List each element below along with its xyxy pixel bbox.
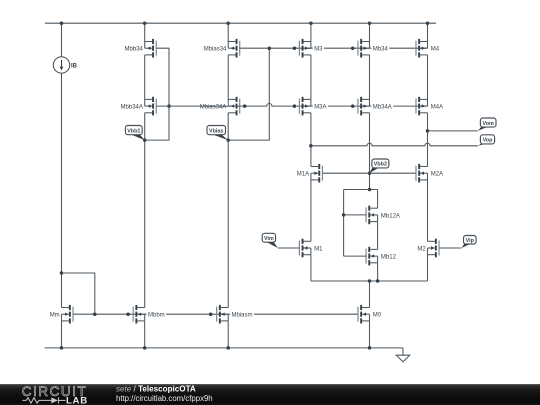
svg-text:Vip: Vip [466,238,475,244]
transistor Mbias34 (PMOS) [228,39,240,58]
wire Mb12 gate loop vertical [343,190,345,257]
wire Vop output with hops [311,143,478,146]
wire VDD to M4 source [427,23,429,41]
svg-text:Vbias: Vbias [209,128,223,134]
node C6 on VDD rail [426,21,430,25]
label Mbias34A [198,102,227,110]
wire bottom mirror gate bias line [73,313,358,315]
node C2 on VDD rail [143,21,147,25]
wire M4A drain to M2A drain [427,113,429,167]
wire Mb34 drain to Mb34A source [369,55,371,100]
node Vbb1 [143,138,147,142]
label Mb34A [371,102,393,110]
node Mm source on rail [60,346,64,350]
svg-text:M2A: M2A [431,172,443,178]
svg-text:M1: M1 [314,246,323,252]
transistor M1 (NMOS) [299,239,311,258]
wire VDD to Mbias34 source [227,23,229,41]
svg-text:M3: M3 [314,47,323,53]
svg-text:Mbias34A: Mbias34A [200,104,227,110]
svg-text:M2: M2 [417,246,426,252]
transistor M4A (PMOS) [415,97,427,116]
wire Mbb34 gate to Vbb1 node [145,48,169,140]
label M3A [313,102,328,110]
node C4 on VDD rail [309,21,313,25]
wire Vim to M1 gate [278,247,300,249]
transistor M1A (NMOS) [311,164,323,183]
transistor Mb34 (PMOS) [357,39,369,58]
svg-text:Mbbm: Mbbm [148,313,165,319]
wire M2 source to tail [427,255,429,281]
transistor Mb12 (NMOS) [366,247,378,266]
node Mbbm source on rail [143,346,147,350]
transistor Mbbm (NMOS) [133,305,145,324]
node C5 on VDD rail [368,21,372,25]
label Mb34 [371,44,389,52]
node Vbias [226,138,230,142]
wire Mbias34 drain to Mbias34A source [227,55,229,100]
net flag Vop [478,135,495,146]
transistor M0 (NMOS) [357,305,369,324]
wire Vom output [428,130,478,132]
node Vbb2 [368,171,372,175]
wire Mbb34 drain to Mbb34A source [144,55,146,100]
wire tail node line [311,280,428,282]
node Vom tap [426,129,430,133]
svg-text:Mbb34: Mbb34 [125,47,144,53]
svg-text:Vop: Vop [483,138,493,144]
transistor Mbb34A (PMOS) [145,97,157,116]
wire M1A source to M1 drain [310,180,312,241]
wire tail to M0 drain [369,281,371,308]
svg-text:Vom: Vom [483,121,494,127]
wire Mm source to rail [61,321,63,348]
ground symbol [396,355,409,362]
label Mbbm [147,310,166,318]
node M0 source on rail [368,346,372,350]
wire IB to Mm drain [61,73,63,307]
wire VDD to Mb34 source [369,23,371,41]
svg-text:M4: M4 [431,47,440,53]
svg-text:M3A: M3A [314,104,326,110]
svg-text:M0: M0 [373,313,382,319]
transistor Mbiasm (NMOS) [216,305,228,324]
wire Vbias node riser [228,48,269,140]
wire Mbias34A drain to Mbiasm drain [227,113,229,308]
svg-text:Vbb2: Vbb2 [374,162,387,168]
wire Mb34A drain to Vbb2 and Mb12 branch [369,113,371,190]
wire M3A drain to M1A drain [310,113,312,167]
node Vbias tap on row1 gate line [268,46,272,50]
net flag Vom [478,118,496,131]
node Mbias34A gate pin [243,104,247,108]
node M0 drain on tail [368,279,372,283]
wire Mbbm source to rail [144,321,146,348]
node C3 on VDD rail [226,21,230,25]
transistor M2 (NMOS) [428,239,440,258]
transistor M2A (NMOS) [415,164,427,183]
wire M2A source to M2 drain [427,180,429,241]
wire Mb12 gate [344,255,367,257]
svg-text:Vbb1: Vbb1 [127,128,140,134]
net flag Vbias [207,126,228,141]
node C1 on VDD rail [60,21,64,25]
svg-text:Mbias34: Mbias34 [204,47,227,53]
footer bar [0,384,540,405]
node Vbb1 riser crossing row2 gate line [167,104,171,108]
node M3A gate pin [293,104,297,108]
wire M3 drain to M3A source [310,55,312,100]
CircuitLab logo resistor-diode icon [23,397,66,403]
node Mbbm gate pin [126,312,130,316]
wire Mb12 source to tail [377,263,379,281]
node Mbiasm gate pin [209,312,213,316]
wire Mb12 branch top horizontal [344,189,378,191]
net flag Vbb1 [125,126,144,141]
svg-text:Mb12: Mb12 [381,254,397,260]
wire VDD to Mbb34 source [144,23,146,41]
node Mb34 gate pin [351,46,355,50]
wire VDD to M3 source [310,23,312,41]
wire Mb12A gate [344,214,367,216]
svg-text:M1A: M1A [297,172,309,178]
svg-text:Mbiasm: Mbiasm [232,313,253,319]
wire Mm drain to gate (diode connection) [62,273,95,314]
node Mb12 source on tail [376,279,380,283]
svg-text:Mb34: Mb34 [373,47,389,53]
wire row2 gate bias line with hop [157,104,428,107]
node Mb34A gate pin [351,104,355,108]
svg-text:Mb34A: Mb34A [373,104,392,110]
node Vop tap [309,144,313,148]
node M3 gate pin [293,46,297,50]
current source IB [53,57,69,73]
svg-text:Vim: Vim [264,236,274,242]
svg-text:http://circuitlab.com/cfppx9h: http://circuitlab.com/cfppx9h [116,394,213,403]
svg-text:M4A: M4A [431,104,443,110]
wire VDD to IB [61,23,63,57]
net flag Vbb2 [369,159,389,173]
transistor Mm (NMOS) [62,305,74,324]
svg-text:Mm: Mm [50,313,60,319]
node Mm gate junction [93,312,97,316]
node Mbiasm source on rail [226,346,230,350]
svg-text:IB: IB [71,63,78,69]
svg-text:LAB: LAB [66,395,88,405]
wire M1 source to tail [310,255,312,281]
transistor Mb12A (NMOS) [366,206,378,225]
net flag Vim [262,233,278,248]
transistor Mb34A (PMOS) [357,97,369,116]
wire M1A-M2A cascode gate line [323,172,416,174]
svg-text:Mb12A: Mb12A [381,213,400,219]
wire M4 drain to M4A source [427,55,429,100]
net flag Vip [462,236,477,249]
label Mbiasm [230,310,254,318]
transistor M3A (PMOS) [299,97,311,116]
svg-text:Mbb34A: Mbb34A [121,104,143,110]
svg-text:sete / TelescopicOTA: sete / TelescopicOTA [116,385,196,394]
wire row1 gate bias line [240,47,428,49]
node Mb12A gate tap [342,213,346,217]
node Mb12 branch top junction [368,188,372,192]
wire M2 gate to Vip [439,247,461,249]
wire Mbb34A drain to Mbbm drain [144,113,146,308]
transistor M4 (PMOS) [415,39,427,58]
transistor Mbb34 (PMOS) [145,39,157,58]
transistor Mbias34A (PMOS) [228,97,240,116]
wire ground stub [402,348,404,355]
wire VDD top rail [45,22,436,24]
wire Mb12A source to Mb12 drain [377,222,379,250]
wire Mbiasm source to rail [227,321,229,348]
wire to Mb12A drain [377,190,379,209]
wire ground bottom rail [45,347,403,349]
transistor M3 (PMOS) [299,39,311,58]
label M3 [313,44,324,52]
wire M0 source to rail [369,321,371,348]
node IB/Mm drain junction [60,271,64,275]
